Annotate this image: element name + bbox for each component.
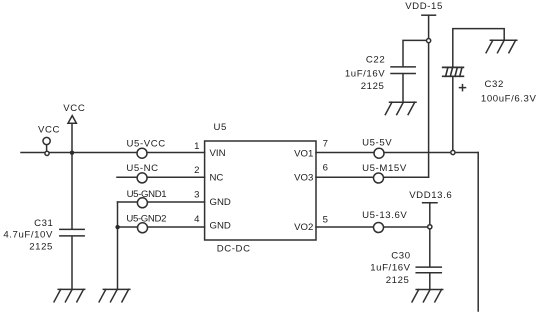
wire VCC port stub <box>46 145 48 151</box>
capacitor C32 hatching <box>446 67 462 76</box>
op-amp U1 : U5 DC-DC converter body <box>205 141 316 240</box>
capacitor C31 <box>60 229 84 236</box>
svg-text:VO3: VO3 <box>294 173 313 184</box>
wire VDD-15 vertical <box>428 15 430 177</box>
svg-text:C22: C22 <box>366 55 385 66</box>
svg-text:2: 2 <box>194 165 199 176</box>
wire C32 top branch <box>453 29 504 68</box>
svg-text:7: 7 <box>323 138 328 149</box>
svg-text:5: 5 <box>323 215 328 226</box>
svg-text:VIN: VIN <box>210 148 226 159</box>
svg-text:U5-13.6V: U5-13.6V <box>362 210 407 221</box>
wire M15V net (pin 6) <box>316 176 429 178</box>
wire VDD13.6 junction to C30 <box>429 229 431 267</box>
junction dot VCC/C31 <box>70 151 74 155</box>
ground (C32 top) <box>486 40 517 52</box>
svg-text:6: 6 <box>323 163 328 174</box>
svg-text:VO2: VO2 <box>294 222 313 233</box>
wire VDD13.6 bar <box>423 202 437 204</box>
svg-text:VO1: VO1 <box>294 149 313 160</box>
node U5-M15V circle <box>374 173 384 183</box>
node C22 branch junction circle <box>427 39 431 43</box>
node U5-5V circle <box>374 148 384 158</box>
svg-text:U5-GND2: U5-GND2 <box>126 213 166 224</box>
ground (GND1/GND2 branch) <box>99 289 130 301</box>
VCC port circle <box>43 137 50 144</box>
capacitor C22 <box>391 67 415 74</box>
svg-text:U5: U5 <box>214 122 227 133</box>
svg-text:GND: GND <box>210 197 231 208</box>
svg-text:C32: C32 <box>485 79 504 90</box>
node U5-GND2 circle <box>138 223 148 233</box>
wire NC net (pin 2) <box>117 176 205 178</box>
capacitor C32 plus sign <box>460 85 466 91</box>
svg-text:3: 3 <box>194 189 199 200</box>
svg-text:U5-NC: U5-NC <box>126 163 158 174</box>
wire main VCC net (pin 1) <box>21 152 205 154</box>
svg-text:1uF/16V: 1uF/16V <box>370 263 410 274</box>
node VDD13.6 junction circle <box>428 225 432 229</box>
svg-text:U5-GND1: U5-GND1 <box>127 189 167 200</box>
svg-text:1uF/16V: 1uF/16V <box>345 69 385 80</box>
svg-text:C31: C31 <box>34 218 53 229</box>
wire VDD-15 bar <box>422 14 436 16</box>
node U5-13.6V circle <box>374 223 384 233</box>
ground (C22) <box>385 102 416 114</box>
junction dot GND1/GND2 <box>115 225 119 229</box>
ground (C31) <box>54 289 85 301</box>
capacitor C32 polarized plates <box>443 67 464 76</box>
svg-text:NC: NC <box>210 173 224 184</box>
svg-text:4: 4 <box>194 214 200 225</box>
node small circle on VCC wire <box>45 151 49 155</box>
wire C32 bottom to 5V net <box>452 77 454 151</box>
wire VCC power vertical through C31 <box>71 123 73 229</box>
svg-text:GND: GND <box>210 221 231 232</box>
svg-text:100uF/6.3V: 100uF/6.3V <box>481 94 537 105</box>
VCC power arrow <box>68 116 76 124</box>
svg-text:4.7uF/10V: 4.7uF/10V <box>3 230 53 241</box>
wire C30 to ground <box>429 273 431 290</box>
wire C22 branch top <box>403 40 427 66</box>
svg-text:2125: 2125 <box>386 275 410 286</box>
svg-text:C30: C30 <box>391 251 410 262</box>
svg-text:U5-VCC: U5-VCC <box>127 138 166 149</box>
wire GND2 net (pin 4) <box>118 226 205 228</box>
node U5-NC circle <box>137 173 147 183</box>
svg-text:U5-5V: U5-5V <box>362 137 392 148</box>
wire VDD13.6 vertical <box>429 203 431 225</box>
node C32 to 5V junction circle <box>451 150 455 154</box>
node U5-VCC circle <box>137 148 147 158</box>
wire 5V net (pin 7) <box>316 152 478 154</box>
svg-text:VCC: VCC <box>38 125 60 136</box>
wire C22 to ground <box>402 74 404 103</box>
ground (C30) <box>412 290 443 302</box>
svg-text:VCC: VCC <box>63 103 85 114</box>
node U5-GND1 circle <box>137 198 147 208</box>
svg-text:2125: 2125 <box>29 242 53 253</box>
wire 13.6V net (pin 5) <box>316 226 430 228</box>
svg-text:DC-DC: DC-DC <box>217 244 251 255</box>
capacitor C30 <box>416 267 441 273</box>
svg-text:2125: 2125 <box>361 81 385 92</box>
wire GND1 vertical to ground <box>117 202 119 289</box>
svg-text:1: 1 <box>194 141 199 152</box>
wire 5V net vertical right <box>477 153 479 312</box>
wire GND1 net (pin 3) <box>118 201 205 203</box>
svg-text:VDD13.6: VDD13.6 <box>409 190 452 201</box>
svg-text:U5-M15V: U5-M15V <box>362 163 407 174</box>
svg-text:VDD-15: VDD-15 <box>405 1 443 12</box>
